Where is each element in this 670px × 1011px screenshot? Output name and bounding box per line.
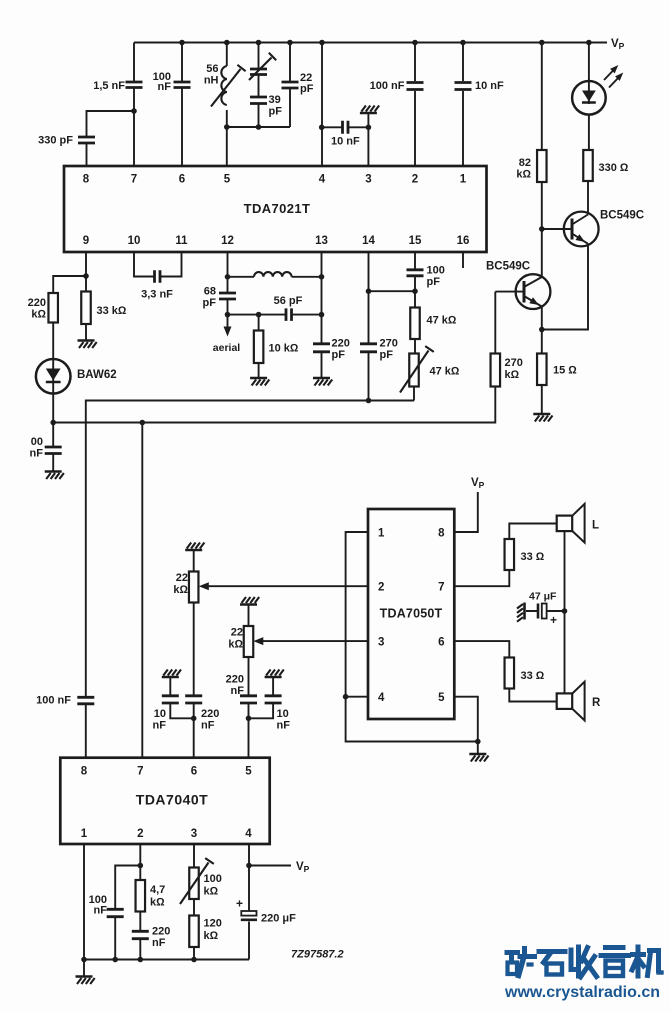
resistor 82k [537,150,547,182]
capacitor 270pF pin14 [360,344,377,352]
wire pin13 down [321,252,323,378]
svg-text:100 nF: 100 nF [36,695,71,707]
svg-text:220: 220 [201,708,219,720]
svg-text:BC549C: BC549C [600,210,644,222]
svg-text:4: 4 [319,174,326,186]
resistor 220k [48,293,58,323]
svg-text:nF: nF [231,685,245,697]
node pin1 rail [81,957,87,963]
resistor 33R left [505,539,515,570]
node rail junction 22pF [287,40,293,46]
svg-text:100 nF: 100 nF [370,80,405,92]
svg-text:BAW62: BAW62 [77,369,117,381]
svg-text:220: 220 [332,338,350,350]
node feedback tap [140,420,146,426]
svg-text:pF: pF [203,297,217,309]
wire pin16 stub [462,252,464,268]
transistor Q1 BC549C lower [516,274,551,309]
svg-text:12: 12 [221,235,234,247]
svg-text:7Z97587.2: 7Z97587.2 [291,949,344,961]
capacitor 100nF pin2 [407,83,424,90]
svg-text:7: 7 [438,582,444,594]
svg-text:nF: nF [30,448,44,460]
svg-text:56: 56 [206,63,218,75]
svg-text:47 μF: 47 μF [529,591,557,603]
resistor 47k fixed [410,308,420,340]
resistor 33k [81,292,91,325]
svg-text:13: 13 [315,235,328,247]
svg-text:33 Ω: 33 Ω [521,551,545,563]
svg-text:1: 1 [81,828,88,840]
wire Q2 emitter down [542,244,588,330]
node pin5 ground junction [475,739,481,745]
svg-text:4: 4 [378,692,385,704]
wire varicap branch [258,43,260,128]
svg-text:15 Ω: 15 Ω [553,365,577,377]
svg-text:6: 6 [191,766,197,778]
svg-text:5: 5 [245,766,252,778]
node pin12 coil tap [225,274,231,280]
wire 10nF link pin4-pin3 [322,126,369,128]
svg-text:nF: nF [152,937,166,949]
svg-text:7: 7 [131,174,137,186]
node rail junction 82k [539,40,545,46]
wire pin2 to rail [414,43,416,167]
resistor 330R [583,150,593,181]
wire 56nH branch upper [226,43,228,67]
svg-text:6: 6 [438,637,444,649]
inductor 56nH variable [221,66,226,105]
svg-text:5: 5 [438,692,445,704]
wire 270k branch [53,292,495,423]
svg-text:2: 2 [378,582,384,594]
capacitor 3,3nF [155,270,161,283]
svg-text:220: 220 [28,297,46,309]
node 47uF junction [562,608,568,614]
wire to TDA7040T pin7 [141,423,143,758]
ground above 10nF-1 [162,676,179,679]
capacitor 100nF left mid [77,697,94,704]
ground above 22k-1 [185,549,202,552]
wire pin15 to pin14 link [369,290,416,292]
svg-text:1: 1 [378,528,385,540]
node pin9 junction [83,273,89,279]
svg-text:pF: pF [269,106,283,118]
wire bottom ground rail [84,959,249,961]
resistor 4,7k [136,880,146,912]
svg-text:2: 2 [412,174,418,186]
svg-text:pF: pF [427,276,441,288]
capacitor 10nF pin1 [455,83,472,90]
node rail junction pin4 [319,40,325,46]
svg-text:270: 270 [380,338,398,350]
svg-text:+: + [550,613,557,627]
node rail junction LED [586,40,592,46]
wire 82k branch [541,43,543,278]
aerial arrow [227,315,229,327]
node pin15 junction [412,288,418,294]
capacitor 10nF pin3 [343,121,349,134]
ground below 15R [533,413,550,416]
svg-text:6: 6 [179,174,185,186]
wire 10k branch [258,315,260,378]
svg-text:1: 1 [460,174,467,186]
svg-text:47 kΩ: 47 kΩ [430,366,460,378]
wire 3,3nF loop pins 10-11 [134,252,182,277]
svg-text:270: 270 [505,357,523,369]
wire speaker bus [564,531,566,693]
wire pin3 volume arrow [262,640,369,642]
node base tap Q1 [539,226,545,232]
svg-text:kΩ: kΩ [204,886,219,898]
svg-text:3,3 nF: 3,3 nF [141,289,173,301]
ground 47uF [523,603,526,620]
wire Vp supply rail top [134,42,607,44]
node 56pF right pin13 [319,312,325,318]
capacitor 100pF pin15 [407,270,424,276]
svg-text:16: 16 [457,235,470,247]
ground pin3 filter [360,112,377,115]
wire 10nF-2 branch [249,678,274,719]
wire 330R to Q2 collector [587,181,589,215]
svg-text:7: 7 [137,766,143,778]
capacitor 220nF bottom [132,931,149,938]
wire pin1 to rail [462,43,464,167]
speaker R [557,693,573,709]
svg-text:4: 4 [245,828,252,840]
node rail junction varicap [256,40,262,46]
svg-text:1,5 nF: 1,5 nF [93,80,125,92]
wire pin5 down [454,697,478,754]
op-amp U1 TDA7021T box [64,166,487,252]
LED indicator [572,81,606,115]
svg-text:BC549C: BC549C [486,261,530,273]
wire pin8 to Vp [454,492,478,532]
svg-text:68: 68 [204,286,216,298]
LED arrows [604,68,616,80]
svg-text:33 kΩ: 33 kΩ [97,305,127,317]
resistor 47k variable [409,354,419,387]
svg-text:10: 10 [277,708,289,720]
svg-text:82: 82 [519,157,531,169]
svg-text:3: 3 [378,637,384,649]
wire pin2 down [139,844,141,960]
svg-text:3: 3 [191,828,197,840]
capacitor 100nF bottom [107,909,124,916]
ground above 22k-2 [240,603,257,606]
capacitor 220nF-1 [185,696,202,703]
svg-text:TDA7050T: TDA7050T [380,607,443,621]
svg-text:TDA7040T: TDA7040T [136,792,208,808]
ground TDA7050T [469,753,486,756]
svg-text:4,7: 4,7 [150,884,165,896]
svg-text:56 pF: 56 pF [274,295,303,307]
wire Q2 base [542,228,572,230]
svg-text:10: 10 [128,235,141,247]
svg-text:39: 39 [269,94,281,106]
svg-text:10: 10 [154,708,166,720]
svg-text:330 pF: 330 pF [38,135,73,147]
svg-text:8: 8 [81,766,88,778]
wire pin6 to 33R R [454,641,556,701]
svg-text:22: 22 [176,572,188,584]
wire pin7 to 33R L [454,524,556,587]
svg-text:330 Ω: 330 Ω [599,162,629,174]
wire diode to gnd cap [52,394,54,471]
node rail junction pin2 [412,40,418,46]
svg-text:220: 220 [226,674,244,686]
svg-text:nF: nF [94,905,108,917]
node 100nF rail [112,957,118,963]
capacitor 220nF-2 [240,696,257,703]
svg-text:kΩ: kΩ [204,930,219,942]
node rail junction 56nH [224,40,230,46]
capacitor 100nF pin6 [174,82,191,88]
capacitor 10nF-2 [265,696,282,703]
svg-text:nF: nF [153,720,167,732]
wire 100nF branch bottom [115,866,140,960]
svg-text:nF: nF [277,720,291,732]
svg-text:10 kΩ: 10 kΩ [269,343,299,355]
node pin7 330pF tap [131,108,137,114]
svg-text:+: + [236,897,243,911]
ground main bottom [76,975,93,978]
svg-text:15: 15 [409,235,422,247]
wire pin15 down [414,252,416,354]
wire pin14 down [368,252,370,401]
wire Q1 emitter to 15R [541,307,543,414]
capacitor 00nF decouple [45,447,62,454]
wire pin4 down [248,844,250,960]
svg-text:2: 2 [137,828,143,840]
wire 22k-1 chain [193,551,195,758]
wire long feedback bottom [86,401,414,758]
svg-text:100: 100 [427,265,445,277]
node BAW62 junction [50,420,56,426]
svg-text:3: 3 [365,174,371,186]
capacitor 22pF [282,82,299,88]
svg-text:8: 8 [438,528,445,540]
svg-text:R: R [592,697,601,709]
svg-text:220: 220 [152,926,170,938]
diode BAW62 [36,359,71,394]
svg-text:120: 120 [204,918,222,930]
wire pin3 stub [367,114,369,167]
svg-text:kΩ: kΩ [150,897,165,909]
resistor 33R right [505,658,515,689]
capacitor 220pF pin13 [313,344,330,352]
node coil right pin13 [319,274,325,280]
wire pin9 down [85,252,87,340]
resistor 100k variable [189,868,199,900]
svg-text:aerial: aerial [213,342,241,354]
node rail junction pin6 [179,40,185,46]
resistor 270k [491,354,501,387]
svg-text:10 nF: 10 nF [475,80,504,92]
node 220nF-1 junction [191,716,197,722]
wire pin7 to rail [133,43,135,167]
wire pin3 down [193,844,195,960]
svg-text:L: L [592,520,599,532]
wire 56pF link [228,314,322,316]
node pin3 rail [191,957,197,963]
ground below 33k [78,339,95,342]
wire pin12 down [227,252,229,315]
node pin2 junction [138,863,144,869]
resistor 22k-2 [244,626,254,657]
watermark Chinese logo [507,950,518,955]
svg-text:220 μF: 220 μF [261,913,296,925]
svg-text:pF: pF [300,83,314,95]
capacitor 330pF [78,137,95,143]
node 10k tap [256,312,262,318]
svg-text:nF: nF [158,81,172,93]
svg-text:9: 9 [83,235,89,247]
wire tank circuit bottom to pin5 [227,127,290,166]
svg-text:nH: nH [204,75,219,87]
node pin4 rail junction [343,694,349,700]
svg-text:kΩ: kΩ [173,584,188,596]
node tank bottom left [224,124,230,130]
ground above 10nF-2 [265,676,282,679]
resistor 120k [189,916,199,948]
capacitor 68pF [219,293,236,299]
resistor 10k [254,331,264,364]
wire 10nF-1 branch [170,678,193,719]
transistor Q2 BC549C upper [564,212,599,247]
svg-text:kΩ: kΩ [228,639,243,651]
resistor 15R [537,354,547,386]
node emitter junction [539,327,545,333]
svg-text:kΩ: kΩ [31,309,46,321]
wire pin2 volume arrow [207,585,368,587]
svg-text:11: 11 [175,235,188,247]
capacitor 39pF [250,97,267,104]
ground below 220pF [313,377,330,380]
svg-text:www.crystalradio.cn: www.crystalradio.cn [504,984,660,1001]
svg-text:5: 5 [224,174,231,186]
wire pin4 to Vp [249,865,291,867]
wire pin4 to rail [321,43,323,167]
wire 47k var to bottom wire [413,387,415,401]
wire Q1 base from 270k [495,291,524,293]
node tank bottom middle [256,124,262,130]
capacitor 47uF [537,604,540,619]
wire pin6 to rail [181,43,183,167]
wire 56nH branch lower [226,110,228,127]
svg-text:kΩ: kΩ [505,369,520,381]
resistor 22k-1 [189,572,199,603]
svg-text:10 nF: 10 nF [331,136,360,148]
svg-text:33 Ω: 33 Ω [521,670,545,682]
svg-text:kΩ: kΩ [516,169,531,181]
wire pin1 to ground rail [83,844,85,976]
capacitor 1,5nF [126,82,143,88]
node 220nF-2 junction [246,716,252,722]
svg-text:nF: nF [201,720,215,732]
node pin12 aerial junction [225,312,231,318]
speaker L [557,516,573,532]
svg-text:14: 14 [362,235,375,247]
node pin3 top [366,125,372,131]
wire 220k branch [53,276,86,359]
node pin4 junction [246,863,252,869]
svg-text:22: 22 [231,627,243,639]
svg-text:pF: pF [380,349,394,361]
wire 22pF branch [289,43,291,128]
wire LED branch [588,43,590,151]
svg-text:100: 100 [204,873,222,885]
wire pin1 pin4 ground rail [346,532,478,742]
capacitor 10nF-1 [162,696,179,703]
svg-text:47 kΩ: 47 kΩ [427,315,457,327]
node pin14 bottom wire [366,398,372,404]
capacitor 56pF [286,308,292,321]
ground below 10k [250,377,267,380]
wire 22k-2 chain [248,605,250,758]
svg-text:pF: pF [332,349,346,361]
capacitor 220uF [241,911,256,916]
wire pin8 330pF branch [87,111,135,166]
op-amp U2 TDA7050T box [368,509,454,719]
node pin2 rail [138,957,144,963]
node pin14 link tap [366,288,372,294]
node rail junction pin1 [460,40,466,46]
svg-text:TDA7021T: TDA7021T [244,201,311,216]
svg-text:00: 00 [31,436,43,448]
svg-text:8: 8 [83,174,90,186]
node pin4 10nF tap [319,125,325,131]
ground below 00nF [45,470,62,473]
inductor antenna coil horizontal [228,276,255,278]
op-amp U3 TDA7040T box [60,758,269,844]
capacitor variable tuning [250,69,267,75]
